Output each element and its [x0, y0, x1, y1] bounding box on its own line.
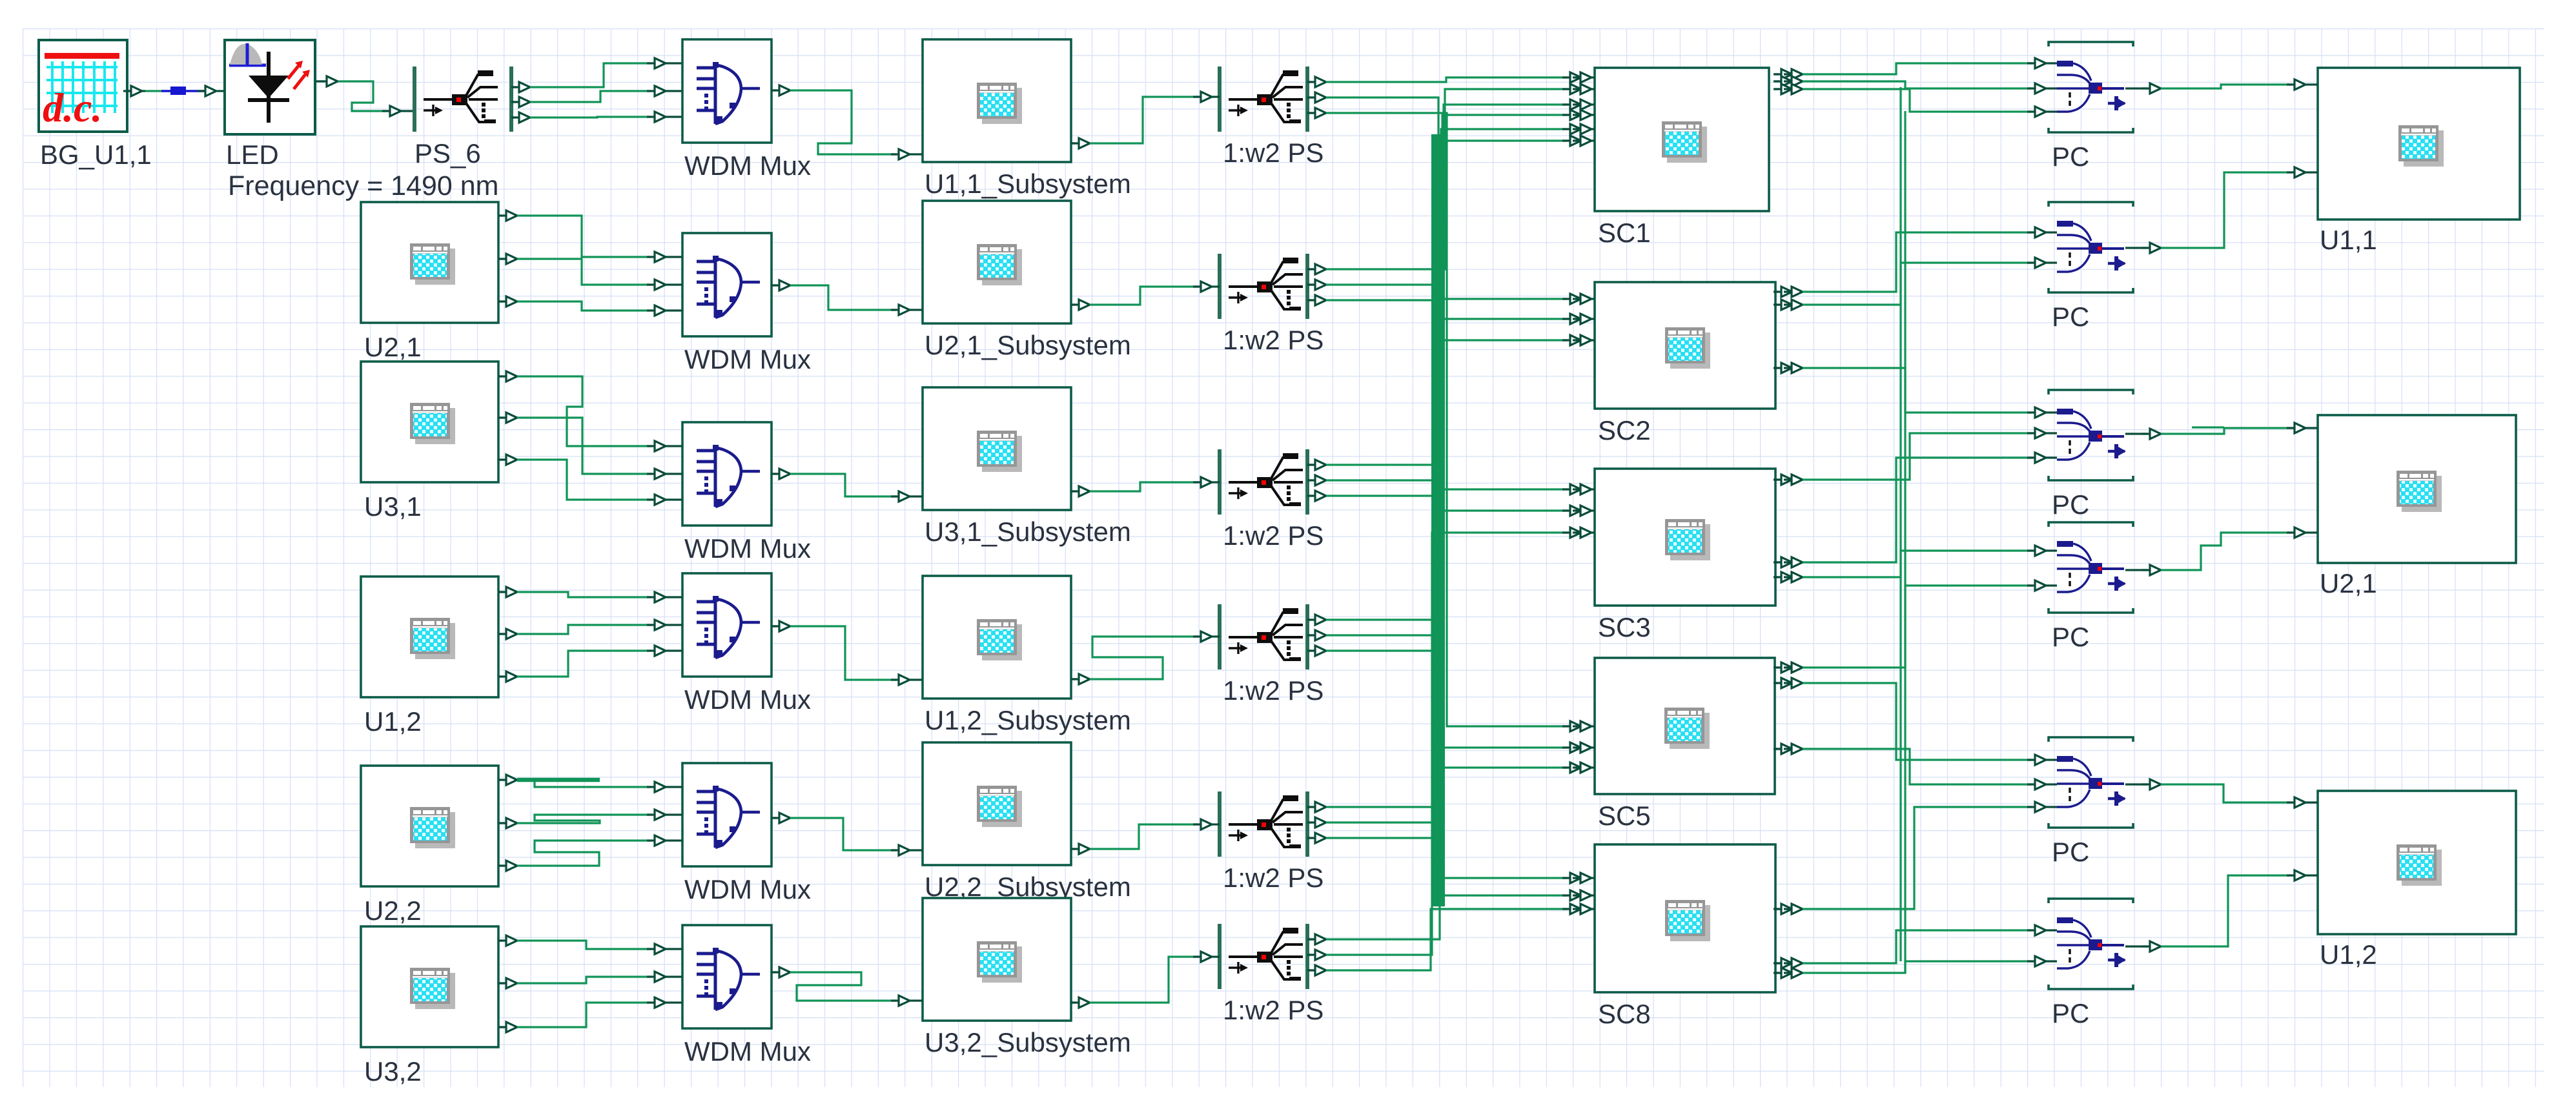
splitter 1:w2 PS 1: [1220, 66, 1324, 168]
wire 1:w2 PS 2 out3 to SC5 in2: [1307, 295, 1595, 753]
source block U3,2: [361, 926, 498, 1087]
wire SC8 out3 to PC6 in2: [1774, 956, 2057, 978]
wire SC5 out1 to PC4 in2: [1774, 580, 2057, 673]
svg-text:U2,2: U2,2: [364, 895, 422, 926]
svg-text:1:w2 PS: 1:w2 PS: [1223, 138, 1324, 168]
wire 1:w2 PS 2 out1 to SC1 in2: [1307, 84, 1595, 274]
wire 1:w2 PS 6 out3 to SC8 in3: [1307, 904, 1595, 975]
svg-text:U2,1: U2,1: [2320, 568, 2377, 598]
wire 1:w2 PS 1 out3 to SC5 in1: [1307, 108, 1595, 731]
wire U2,2_Subsystem to 1:w2 PS 5: [1071, 819, 1220, 854]
wire ladder overlay vertical 2: [1904, 111, 1906, 973]
multiplexer WDM Mux 3: [682, 422, 811, 564]
wire PC1 to U1,1: [2125, 79, 2318, 94]
multiplexer WDM Mux 6: [682, 925, 811, 1067]
svg-text:1:w2 PS: 1:w2 PS: [1223, 863, 1324, 893]
svg-text:LED: LED: [226, 139, 279, 170]
wire U3,2_Subsystem to 1:w2 PS 6: [1071, 952, 1220, 1008]
subsystem block U2,2_Subsystem: [923, 742, 1131, 902]
subsystem block U1,2_Subsystem: [923, 576, 1131, 735]
svg-text:WDM Mux: WDM Mux: [684, 150, 811, 181]
receiver block U1,2: [2318, 791, 2516, 970]
svg-text:WDM Mux: WDM Mux: [684, 684, 811, 715]
wire U1,1_Subsystem to 1:w2 PS 1: [1071, 92, 1220, 148]
wire PS_6 out3 to WDM Mux 1 in3: [511, 112, 682, 123]
svg-text:PC: PC: [2052, 998, 2089, 1028]
wire WDM Mux 3 to U3,1_Subsystem: [772, 469, 923, 502]
wire 1:w2 PS 1 out2 to SC2 in1: [1307, 92, 1595, 304]
splitter 1:w2 PS 5: [1220, 791, 1324, 893]
svg-text:U3,2: U3,2: [364, 1056, 422, 1087]
wire U2,2 out1 to WDM Mux 5 in1: [498, 775, 682, 792]
subsystem block U1,1_Subsystem: [923, 39, 1131, 199]
wire ladder overlay vertical 1: [1899, 87, 1901, 961]
wire PC5 to U1,2: [2125, 779, 2318, 808]
wire SC2 out1 to PC2 in1: [1774, 227, 2057, 297]
wire U3,1 out3 to WDM Mux 3 in3: [498, 454, 682, 505]
wire 1:w2 PS 5 out3 to SC8 in2: [1307, 833, 1595, 901]
wire 1:w2 PS 4 out2 to SC3 in1: [1307, 484, 1595, 640]
star coupler block SC2: [1595, 282, 1775, 445]
wire U3,2 out2 to WDM Mux 6 in2: [498, 972, 682, 988]
wire PC3 overlap stub: [2192, 426, 2224, 428]
wire U3,2 out3 to WDM Mux 6 in3: [498, 997, 682, 1032]
wire SC2 out3 to PC3 in1: [1774, 363, 2057, 418]
power combiner PC 1: [2049, 42, 2133, 172]
wire BG_U1,1 to LED (modulation signal): [123, 86, 225, 96]
svg-text:PC: PC: [2052, 837, 2089, 867]
svg-text:SC1: SC1: [1598, 218, 1651, 248]
wire 1:w2 PS 6 out2 to SC3 in3: [1307, 527, 1595, 960]
receiver block U2,1: [2318, 415, 2516, 598]
svg-text:PC: PC: [2052, 489, 2089, 520]
wire SC5 out3 to PC5 in2: [1774, 744, 2057, 790]
wire PS_6 out1 to WDM Mux 1 in1: [511, 58, 682, 92]
source block BG_U1,1: [39, 40, 152, 170]
wire SC1 out1 to PC1 in1: [1774, 58, 2057, 79]
star coupler block SC5: [1595, 658, 1775, 831]
wire LED to PS_6: [315, 76, 414, 116]
svg-text:U1,1: U1,1: [2320, 225, 2377, 255]
source block U2,1: [361, 202, 498, 362]
svg-text:U2,1_Subsystem: U2,1_Subsystem: [925, 330, 1131, 360]
wire 1:w2 PS 4 out1 to SC1 in4: [1307, 110, 1595, 625]
svg-text:PC: PC: [2052, 301, 2089, 332]
wire 1:w2 PS 6 out1 to SC1 in6: [1307, 136, 1595, 945]
svg-text:Frequency = 1490 nm: Frequency = 1490 nm: [228, 170, 499, 201]
svg-text:WDM Mux: WDM Mux: [684, 1036, 811, 1067]
wire U1,2 out3 to WDM Mux 4 in3: [498, 646, 682, 682]
receiver block U1,1: [2318, 68, 2520, 255]
svg-text:U1,2: U1,2: [2320, 939, 2377, 970]
source block U3,1: [361, 362, 498, 522]
wire U2,1 out2 to WDM Mux 2 in2: [498, 254, 682, 290]
wire WDM Mux 5 to U2,2_Subsystem: [772, 813, 923, 855]
power splitter PS_6: [414, 66, 511, 168]
wire WDM Mux 2 to U2,1_Subsystem: [772, 280, 923, 315]
svg-text:1:w2 PS: 1:w2 PS: [1223, 995, 1324, 1025]
wire U3,1 out1 to WDM Mux 3 in1: [498, 371, 682, 451]
svg-text:PC: PC: [2052, 622, 2089, 652]
wire SC3 out3 to PC4 in1: [1774, 546, 2057, 582]
wire U2,1 out1 to WDM Mux 2 in1: [498, 210, 682, 262]
svg-text:U3,2_Subsystem: U3,2_Subsystem: [925, 1027, 1131, 1057]
wire U2,2 out2 to WDM Mux 5 in2: [498, 810, 682, 828]
svg-text:SC2: SC2: [1598, 415, 1651, 445]
splitter 1:w2 PS 6: [1220, 924, 1324, 1025]
subsystem block U3,2_Subsystem: [923, 898, 1131, 1057]
power combiner PC 3: [2049, 390, 2133, 520]
wire SC5 out2 to PC5 in1: [1774, 678, 2057, 765]
svg-text:SC3: SC3: [1598, 612, 1651, 642]
splitter 1:w2 PS 2: [1220, 254, 1324, 355]
svg-text:WDM Mux: WDM Mux: [684, 874, 811, 904]
wire 1:w2 PS 5 out2 to SC3 in2: [1307, 505, 1595, 828]
svg-text:SC8: SC8: [1598, 999, 1651, 1029]
source block U1,2: [361, 577, 498, 737]
wire 1:w2 PS 3 out2 to SC2 in3: [1307, 335, 1595, 485]
wire SC1 out2 to PC1 in2: [1774, 76, 2057, 94]
wire bundle solid band: [1431, 134, 1445, 906]
splitter 1:w2 PS 3: [1220, 449, 1324, 551]
svg-text:PS_6: PS_6: [414, 138, 481, 168]
wire U3,1_Subsystem to 1:w2 PS 3: [1071, 477, 1220, 496]
wire PC4 to U2,1: [2125, 527, 2318, 575]
wire WDM Mux 4 to U1,2_Subsystem: [772, 621, 923, 685]
power combiner PC 5: [2049, 737, 2133, 867]
svg-text:U2,1: U2,1: [364, 332, 422, 362]
wire 1:w2 PS 1 out1 to SC1 in1: [1307, 72, 1595, 87]
subsystem block U2,1_Subsystem: [923, 201, 1131, 360]
subsystem block U3,1_Subsystem: [923, 387, 1131, 547]
wire 1:w2 PS 5 out1 to SC1 in5: [1307, 124, 1595, 812]
svg-text:U3,1_Subsystem: U3,1_Subsystem: [925, 516, 1131, 547]
wire 1:w2 PS 3 out1 to SC1 in3: [1307, 99, 1595, 470]
wire 1:w2 PS 4 out3 to SC8 in1: [1307, 646, 1595, 883]
svg-text:U1,2: U1,2: [364, 706, 422, 737]
wire SC8 out1 to PC5 in3: [1774, 802, 2057, 914]
wire SC8 out2 to PC6 in1: [1774, 925, 2057, 968]
svg-text:WDM Mux: WDM Mux: [684, 533, 811, 564]
star coupler block SC8: [1595, 844, 1775, 1029]
svg-text:1:w2 PS: 1:w2 PS: [1223, 325, 1324, 355]
wire SC3 out2 to PC3 in3: [1774, 453, 2057, 567]
wire SC1 out3 to PC1 in3: [1774, 84, 2057, 117]
svg-text:d.c.: d.c.: [43, 85, 102, 130]
wire SC2 out2 to PC2 in2: [1774, 258, 2057, 310]
wire PC6 to U1,2: [2125, 870, 2318, 952]
source block U2,2: [361, 766, 498, 926]
wire U3,1 out2 to WDM Mux 3 in2: [498, 413, 682, 479]
power combiner PC 6: [2049, 899, 2133, 1028]
wire 1:w2 PS 2 out2 to SC2 in2: [1307, 280, 1595, 324]
wire PS_6 out2 to WDM Mux 1 in2: [511, 86, 682, 107]
power combiner PC 4: [2049, 522, 2133, 652]
wire 1:w2 PS 3 out3 to SC5 in3: [1307, 491, 1595, 773]
multiplexer WDM Mux 2: [682, 233, 811, 374]
splitter 1:w2 PS 4: [1220, 604, 1324, 706]
star coupler block SC3: [1595, 469, 1775, 642]
svg-text:U3,1: U3,1: [364, 491, 422, 522]
wire WDM Mux 1 to U1,1_Subsystem: [772, 85, 923, 159]
wire U2,1 out3 to WDM Mux 2 in3: [498, 296, 682, 316]
svg-text:1:w2 PS: 1:w2 PS: [1223, 675, 1324, 706]
star coupler block SC1: [1595, 68, 1769, 248]
wire SC3 out1 to PC3 in2: [1774, 428, 2057, 485]
wire U1,2 out2 to WDM Mux 4 in2: [498, 620, 682, 639]
wire U1,2_Subsystem to 1:w2 PS 4: [1071, 631, 1220, 684]
svg-text:U1,2_Subsystem: U1,2_Subsystem: [925, 705, 1131, 735]
svg-text:U1,1_Subsystem: U1,1_Subsystem: [925, 168, 1131, 199]
svg-text:SC5: SC5: [1598, 801, 1651, 831]
svg-text:PC: PC: [2052, 141, 2089, 172]
wire PC2 to U1,1: [2125, 167, 2318, 253]
svg-text:WDM Mux: WDM Mux: [684, 344, 811, 374]
wire PC3 to U2,1: [2125, 423, 2318, 439]
svg-text:BG_U1,1: BG_U1,1: [40, 139, 152, 170]
wire U3,2 out1 to WDM Mux 6 in1: [498, 935, 682, 954]
LED block: [225, 40, 499, 201]
wire U2,2 out3 to WDM Mux 5 in3: [498, 835, 682, 871]
wire WDM Mux 6 to U3,2_Subsystem: [772, 967, 923, 1006]
wire U2,1_Subsystem to 1:w2 PS 2: [1071, 281, 1220, 310]
multiplexer WDM Mux 5: [682, 763, 811, 904]
multiplexer WDM Mux 1: [682, 39, 811, 181]
power combiner PC 2: [2049, 202, 2133, 332]
wire U1,2 out1 to WDM Mux 4 in1: [498, 587, 682, 602]
svg-text:1:w2 PS: 1:w2 PS: [1223, 520, 1324, 551]
multiplexer WDM Mux 4: [682, 573, 811, 715]
